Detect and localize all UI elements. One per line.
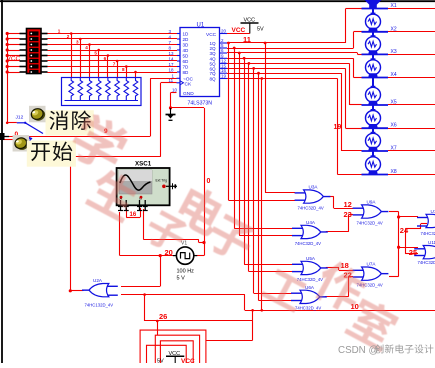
label 消除 [46, 110, 94, 135]
wire Q-output row 3 [227, 52, 362, 236]
wire lamp row X7 to right edge [388, 150, 435, 152]
lamp X5 [362, 78, 397, 106]
lamp X2 [362, 9, 397, 33]
svg-text:7Q: 7Q [210, 71, 217, 76]
lamp X3 [362, 32, 397, 55]
watermark text [66, 109, 402, 352]
svg-text:4D: 4D [183, 48, 190, 53]
svg-text:VCC: VCC [244, 18, 256, 24]
clock source V1 100Hz [173, 240, 197, 281]
wire D-input row 5 [7, 54, 177, 78]
wire net 10 bottom long [245, 295, 435, 312]
svg-text:CSDN @: CSDN @ [338, 345, 378, 356]
node VCC wire label [227, 27, 250, 34]
svg-text:U1: U1 [197, 23, 205, 29]
wire Q-output row 8 [227, 77, 362, 310]
off-page connector [0, 133, 9, 140]
wire Q-output row 4 [227, 57, 362, 264]
wire Q-output row 7 [227, 72, 362, 301]
svg-text:U2A: U2A [93, 278, 103, 283]
svg-text:4: 4 [85, 45, 88, 50]
wire net 9 : OC to clear switch [5, 78, 177, 136]
wire net 26 [121, 293, 253, 321]
svg-text:16: 16 [130, 212, 137, 218]
wire lamp row X5 to right edge [388, 104, 435, 106]
wire gate U5A input 2 [249, 271, 293, 273]
svg-text:U9A: U9A [367, 200, 377, 205]
oscilloscope XSC1 [117, 161, 177, 211]
node 0 label near start switch [15, 131, 19, 138]
svg-text:1: 1 [58, 28, 61, 33]
pushbutton icon 2 [13, 135, 31, 152]
node 11 [243, 35, 251, 44]
lamp X8 [362, 151, 397, 175]
svg-text:26: 26 [159, 312, 167, 321]
wire Q-output row 1 [227, 9, 362, 201]
wire gate U5A input 1 [244, 264, 292, 266]
svg-text:VCC: VCC [206, 32, 217, 38]
wire gate U6A input 1 [254, 293, 292, 295]
wire D-input row 7 [7, 65, 177, 78]
pushbutton icon 1 [29, 106, 47, 123]
switch J12 clear [16, 115, 44, 134]
svg-text:3D: 3D [183, 43, 190, 48]
svg-text:X6: X6 [391, 123, 397, 129]
node 25 [409, 248, 417, 257]
CSDN credit text [338, 344, 433, 356]
wire D-input row 6 [7, 60, 177, 78]
svg-text:GND: GND [183, 91, 194, 97]
node 10 [351, 302, 359, 311]
svg-text:74HC32D_4V: 74HC32D_4V [298, 206, 324, 211]
svg-text:7D: 7D [183, 65, 190, 70]
svg-text:X5: X5 [391, 100, 397, 106]
wire gate U4A input 2 [239, 235, 292, 237]
svg-text:5D: 5D [183, 54, 190, 59]
wire net 24 : U9A/U7A outputs to right gates [389, 212, 427, 277]
svg-text:2: 2 [67, 34, 70, 39]
wire D-input row 1 [7, 32, 177, 78]
svg-text:8D: 8D [183, 70, 190, 75]
ground symbol [166, 108, 176, 120]
svg-text:5V: 5V [157, 359, 164, 364]
wire gate U3A input 2 [229, 200, 296, 202]
wire gate U6A input 2 [259, 300, 292, 302]
svg-text:U3A: U3A [309, 185, 319, 190]
wire Q-output row 5 [227, 62, 362, 272]
svg-text:10: 10 [172, 88, 178, 93]
wire start switch to gate U2A output [69, 153, 84, 292]
wire net 12 : U3A out to U9A in1 [328, 197, 353, 209]
switch J13 start [25, 136, 32, 147]
svg-text:5V: 5V [257, 27, 264, 33]
svg-text:X7: X7 [391, 146, 397, 152]
svg-text:X2: X2 [391, 26, 397, 32]
svg-text:5: 5 [94, 50, 97, 55]
node net labels 1-8 [58, 28, 125, 72]
svg-text:X3: X3 [391, 49, 397, 55]
node 18 [341, 261, 349, 270]
svg-text:V1: V1 [181, 240, 187, 246]
svg-text:2D: 2D [183, 37, 190, 42]
svg-text:1D: 1D [183, 32, 190, 37]
lamp X6 [362, 105, 397, 129]
svg-text:U7A: U7A [367, 262, 377, 267]
node VCC bus label [7, 56, 21, 63]
OR gate U6A [291, 285, 327, 311]
DIP switch S1 [20, 29, 48, 75]
svg-text:8Q: 8Q [210, 77, 217, 82]
svg-text:U5A: U5A [306, 256, 316, 261]
OR gate U11A (clipped) [414, 240, 435, 265]
wire GND net 0 [143, 93, 205, 256]
svg-text:19: 19 [334, 124, 342, 131]
svg-text:74HC32D_4V: 74HC32D_4V [418, 260, 435, 265]
bottom VCC loop rectangles [140, 330, 206, 363]
lamp X4 [362, 54, 397, 78]
svg-text:3Q: 3Q [210, 51, 217, 56]
wire net 22 : U6A out to U7A in2 [325, 277, 353, 297]
wire Q-output row 2 [227, 32, 362, 229]
wire net 11 branch to gate U3A [264, 42, 295, 193]
svg-text:U11A: U11A [428, 240, 435, 245]
svg-text:14: 14 [169, 57, 175, 62]
wire D-input row 8 [7, 71, 177, 78]
svg-text:VCC: VCC [232, 27, 246, 34]
node 12 [344, 200, 352, 209]
wire lamp row X4 to right edge [388, 77, 435, 79]
wire lamp row X1 to right edge [388, 8, 435, 10]
svg-text:74HC32D_4V: 74HC32D_4V [421, 231, 435, 236]
OR gate U10A (clipped) [417, 209, 435, 236]
wire net 18 : U5A out to U7A in1 [326, 268, 353, 271]
svg-text:74LS373N: 74LS373N [188, 101, 213, 107]
svg-text:CK: CK [185, 81, 192, 87]
svg-text:24: 24 [400, 226, 409, 235]
svg-text:U6A: U6A [305, 285, 315, 290]
svg-text:U10A: U10A [431, 209, 435, 214]
svg-text:74HC132D_4V: 74HC132D_4V [85, 302, 114, 307]
svg-text:U4A: U4A [306, 220, 316, 225]
svg-text:X4: X4 [391, 72, 397, 78]
wire CK net : start switch to CK pin [68, 83, 177, 157]
wire VCC bus vertical [6, 32, 9, 123]
svg-text:100 Hz: 100 Hz [177, 269, 195, 275]
wire lamp row X3 to right edge [388, 54, 435, 56]
svg-text:XSC1: XSC1 [135, 161, 152, 168]
svg-text:74HC32D_4V: 74HC32D_4V [295, 306, 321, 311]
svg-text:X8: X8 [391, 169, 397, 175]
lamp X1 [362, 0, 397, 9]
OR gate U5A [292, 256, 328, 282]
wire lamp row X6 to right edge [388, 128, 435, 130]
wire gate U4A input 1 [234, 228, 292, 230]
node 26 [159, 312, 167, 321]
svg-text:8: 8 [122, 67, 125, 72]
OR gate U2A mirrored [82, 278, 118, 307]
IC U1 74LS373N [169, 23, 228, 107]
svg-text:13: 13 [169, 51, 175, 56]
wire Q-output row 6 [227, 67, 362, 293]
VCC power symbol top [241, 18, 265, 34]
node 9 [104, 128, 108, 135]
svg-text:3: 3 [76, 39, 79, 44]
node 20 [165, 248, 173, 257]
svg-text:VCC: VCC [7, 56, 21, 63]
wire D-input row 4 [7, 49, 177, 78]
OR gate U9A [353, 200, 389, 226]
svg-text:6: 6 [104, 56, 107, 61]
svg-text:7: 7 [113, 61, 116, 66]
svg-text:Ext Trig: Ext Trig [156, 179, 168, 183]
wire net 20 : scope A / clock [120, 212, 177, 287]
svg-text:17: 17 [169, 62, 175, 67]
svg-text:23: 23 [344, 210, 352, 219]
wire D-input row 2 [7, 38, 177, 78]
wire lamp row X2 to right edge [388, 31, 435, 33]
node 19 [334, 124, 342, 131]
lamp X7 [362, 128, 397, 151]
OR gate U4A [292, 220, 328, 246]
svg-text:J12: J12 [16, 115, 24, 121]
svg-text:11: 11 [169, 78, 174, 83]
node 24 [400, 226, 409, 235]
svg-text:12: 12 [344, 200, 352, 209]
svg-text:19: 19 [221, 74, 227, 79]
node 22 [344, 271, 352, 280]
wire scope probe link net 16 [126, 208, 140, 218]
svg-text:16: 16 [221, 68, 227, 73]
svg-text:X1: X1 [391, 3, 397, 9]
OR gate U7A [353, 262, 389, 288]
svg-text:VCC: VCC [181, 358, 195, 363]
wire clear switch link [3, 122, 17, 140]
node 23 [344, 210, 352, 219]
label 开始 [27, 141, 76, 167]
svg-text:VCC: VCC [169, 351, 181, 357]
node 16 [130, 212, 137, 218]
wire net 23 : U4A out to U9A in2 [326, 215, 353, 232]
node 0 gnd [207, 178, 211, 185]
wire to bottom VCC loop [156, 309, 254, 341]
svg-text:0: 0 [207, 178, 211, 185]
svg-text:6D: 6D [183, 59, 190, 64]
svg-text:5 V: 5 V [177, 276, 186, 282]
svg-text:74HC32D_4V: 74HC32D_4V [295, 241, 321, 246]
wire lamp row X8 to right edge [388, 174, 435, 176]
resistor network RP1 [62, 78, 142, 106]
svg-text:18: 18 [169, 68, 175, 73]
svg-text:11: 11 [243, 35, 251, 44]
svg-text:74HC32D_4V: 74HC32D_4V [357, 221, 383, 226]
VCC power symbol bottom [157, 351, 195, 365]
svg-text:20: 20 [221, 29, 227, 34]
OR gate U3A [295, 185, 331, 211]
svg-text:20: 20 [165, 248, 173, 257]
wire D-input row 3 [7, 43, 177, 78]
